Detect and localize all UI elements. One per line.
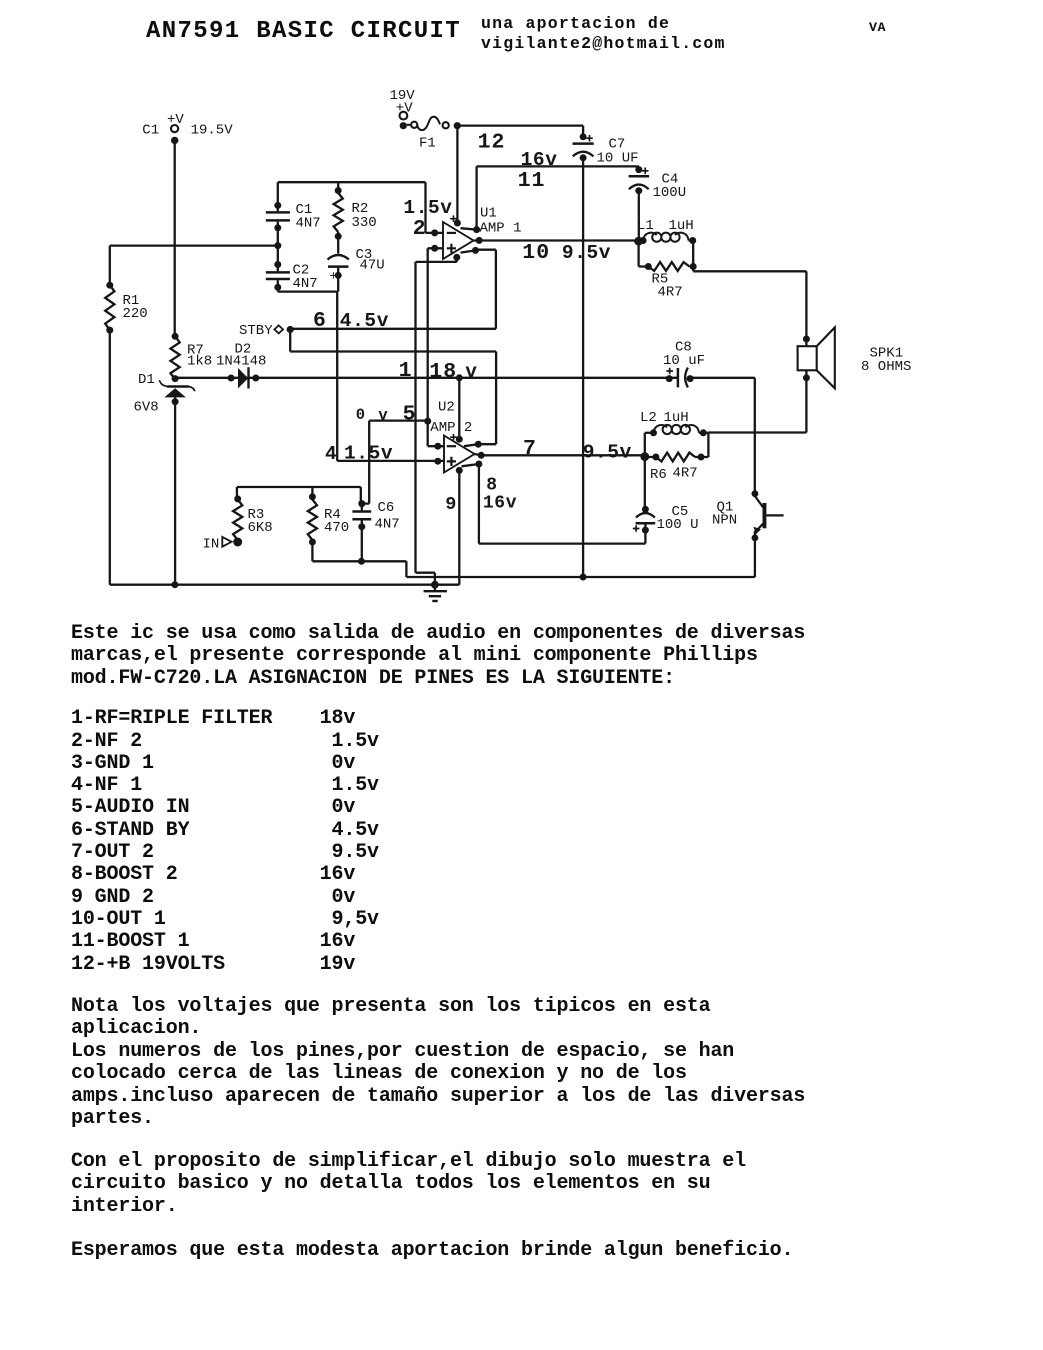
wire 18v ripple-filter line <box>175 377 678 379</box>
paragraph intro <box>71 623 805 691</box>
U2 non-inverting input dot pin4 <box>434 458 441 465</box>
ground symbol <box>431 581 439 589</box>
U1 standby pin6 stub <box>461 250 476 252</box>
svg-text:19.5V: 19.5V <box>191 123 234 139</box>
svg-text:11: 11 <box>518 169 546 193</box>
svg-text:1.5v: 1.5v <box>344 443 393 465</box>
wire R3/R4 top join <box>237 487 361 504</box>
svg-text:v: v <box>465 361 477 383</box>
wire stand-by branch to U2 pin6 <box>290 330 496 445</box>
wire C2 bottom to C3 bottom <box>278 290 337 292</box>
wire left rail upper <box>109 246 111 285</box>
U2 ground pin9 dot <box>456 467 463 474</box>
wire +V vertical down to R7 <box>174 144 176 336</box>
inductor L1 1uH <box>639 239 645 241</box>
U1 supply pin12 dot <box>454 220 461 227</box>
svg-text:4: 4 <box>325 443 337 465</box>
watermark VA <box>869 21 886 34</box>
svg-text:L1: L1 <box>637 218 654 234</box>
svg-text:C1: C1 <box>142 123 159 139</box>
svg-text:AMP 1: AMP 1 <box>480 221 522 237</box>
U1 output pin10 stub <box>476 237 483 244</box>
wire top feedback line <box>278 181 426 183</box>
svg-text:8 OHMS: 8 OHMS <box>861 359 911 375</box>
U2 standby stub <box>464 444 478 446</box>
U2 inverting input dot <box>434 443 441 450</box>
subtitle contribution <box>481 14 726 55</box>
capacitor C3 47U <box>328 255 349 260</box>
wire L2 node down to C5 <box>644 457 646 510</box>
svg-text:1uH: 1uH <box>664 410 689 426</box>
svg-text:470: 470 <box>324 520 349 536</box>
svg-text:4N7: 4N7 <box>375 517 400 533</box>
inductor L2 1uH <box>645 432 655 434</box>
resistor R5 4R7 parallel with L1 <box>639 241 649 267</box>
speaker SPK1 8 OHMS <box>798 346 817 370</box>
capacitor C2 4N7 <box>266 271 290 274</box>
wire stand-by line to U1 pin6 <box>290 250 496 329</box>
capacitor C7 10UF <box>582 126 584 138</box>
svg-text:9: 9 <box>445 494 456 515</box>
wire speaker bottom to L2 side <box>708 370 806 432</box>
svg-text:4N7: 4N7 <box>296 216 321 232</box>
resistor R2 330 <box>337 182 339 193</box>
svg-text:1N4148: 1N4148 <box>216 354 266 370</box>
wire NF1 vertical x=337 down to pin4 line <box>336 292 338 461</box>
capacitor C6 4N7 <box>358 500 365 507</box>
diode D2 1N4148 <box>238 368 248 388</box>
op-amp U1 AMP 1 <box>443 222 474 259</box>
wire output2 9.5v line to L2 <box>475 454 645 455</box>
terminal STBY <box>274 325 283 333</box>
svg-text:12: 12 <box>478 131 506 155</box>
resistor R3 6K8 <box>236 487 238 500</box>
wire +B line fuse to C7 corner <box>457 124 583 126</box>
wire ripple line corner down to Q1 collector <box>754 378 756 494</box>
paragraph proposito <box>71 1151 746 1219</box>
svg-text:10 uF: 10 uF <box>663 353 705 369</box>
svg-text:4R7: 4R7 <box>673 466 698 482</box>
terminal IN <box>222 537 231 547</box>
U2 boost pin8 stub <box>462 464 479 466</box>
svg-text:4R7: 4R7 <box>658 285 683 301</box>
wire pin9 ground drop <box>458 470 460 584</box>
svg-text:1: 1 <box>399 359 412 383</box>
svg-text:D1: D1 <box>138 372 155 388</box>
svg-text:6V8: 6V8 <box>134 400 159 416</box>
capacitor C4 100U <box>635 166 642 173</box>
svg-text:+V: +V <box>167 112 184 128</box>
pin assignment list <box>71 708 379 976</box>
paragraph esperamos <box>71 1240 793 1263</box>
svg-text:5: 5 <box>403 402 416 426</box>
svg-text:1.5v: 1.5v <box>403 197 452 219</box>
svg-text:10: 10 <box>522 241 550 265</box>
svg-text:18: 18 <box>429 360 457 384</box>
wire pin12 supply drop to U1 <box>456 126 458 223</box>
zener diode D1 6V8 <box>167 385 189 387</box>
capacitor C8 10uF on ripple line <box>666 375 673 382</box>
svg-text:AMP 2: AMP 2 <box>430 420 472 436</box>
svg-text:6K8: 6K8 <box>248 520 273 536</box>
svg-text:100U: 100U <box>653 185 687 201</box>
svg-text:8: 8 <box>486 475 497 495</box>
wire horizontal to C1/C2 midpoint <box>110 244 278 246</box>
svg-text:L2: L2 <box>640 410 657 426</box>
capacitor C5 100U boost2 <box>642 506 649 513</box>
svg-text:9.5v: 9.5v <box>562 242 611 264</box>
wire bottom ground rail <box>110 584 460 586</box>
wire pin4 NF1 line to U2 + input <box>337 460 444 462</box>
svg-text:1uH: 1uH <box>669 218 694 234</box>
svg-text:v: v <box>378 406 388 424</box>
svg-text:7: 7 <box>523 437 536 461</box>
svg-text:U1: U1 <box>480 206 497 222</box>
capacitor C1 4N7 <box>277 182 279 211</box>
svg-text:6: 6 <box>313 309 326 333</box>
U2 output pin7 stub <box>478 452 485 459</box>
svg-text:330: 330 <box>352 215 377 231</box>
title AN7591 BASIC CIRCUIT <box>146 20 461 44</box>
paragraph nota <box>71 996 805 1131</box>
svg-text:16v: 16v <box>521 149 558 171</box>
svg-text:10 UF: 10 UF <box>597 151 639 167</box>
svg-text:R6: R6 <box>650 467 667 483</box>
wire lower ground rail Q1 emitter <box>406 561 755 577</box>
wire output1 9.5v line to L1 <box>474 239 639 241</box>
resistor R1 <box>105 285 114 330</box>
svg-text:IN: IN <box>203 537 220 553</box>
svg-text:NPN: NPN <box>712 513 737 529</box>
resistor R4 470 <box>311 487 313 500</box>
U1 non-inverting input wire to audio-in node <box>428 248 444 446</box>
svg-text:220: 220 <box>123 306 148 322</box>
U1 inverting input pin2 wire <box>426 182 444 233</box>
terminal +V 19.5V input <box>171 125 178 132</box>
svg-text:C6: C6 <box>378 500 395 516</box>
svg-text:F1: F1 <box>419 136 436 152</box>
svg-text:16v: 16v <box>483 494 517 514</box>
U2 audio-in pin5 node wire <box>362 421 428 504</box>
svg-text:47U: 47U <box>360 258 385 274</box>
svg-text:100 U: 100 U <box>657 517 699 533</box>
svg-text:STBY: STBY <box>239 323 273 339</box>
wire left rail lower <box>109 330 111 585</box>
svg-text:2: 2 <box>413 217 426 241</box>
svg-text:4N7: 4N7 <box>293 276 318 292</box>
U2 supply pin1 wire <box>458 378 460 440</box>
svg-text:0: 0 <box>356 406 365 424</box>
svg-text:4.5v: 4.5v <box>340 310 389 332</box>
wire R5 to speaker top <box>693 267 806 347</box>
op-amp U2 AMP 2 <box>444 436 475 473</box>
transistor Q1 NPN <box>752 490 759 497</box>
resistor R6 4R7 parallel with L2 <box>645 433 656 457</box>
U1 ground pin3 wire <box>453 254 460 261</box>
svg-text:9.5v: 9.5v <box>583 441 632 463</box>
wire C7 ground drop <box>582 158 584 577</box>
junction dot pin1 line at U2 supply <box>456 374 463 381</box>
svg-text:1k8: 1k8 <box>187 354 212 370</box>
resistor R7 1k8 <box>171 336 180 379</box>
svg-text:+: + <box>330 269 338 284</box>
svg-text:U2: U2 <box>438 400 455 416</box>
U1 boost pin11 stub <box>461 228 477 229</box>
wire 16v boost1 line <box>477 166 639 229</box>
